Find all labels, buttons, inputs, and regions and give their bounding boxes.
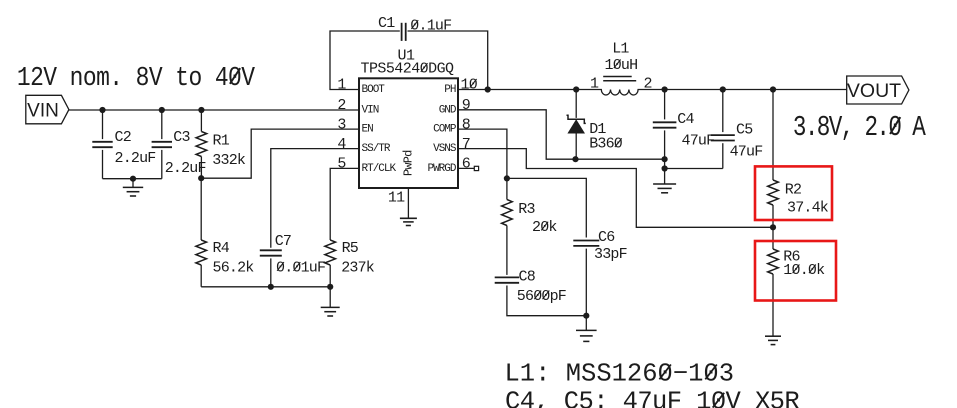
wire C7 bottom bbox=[270, 258, 272, 286]
svg-text:3.8V, 2.0 A: 3.8V, 2.0 A bbox=[793, 111, 926, 144]
node junction VIN/C3 bbox=[159, 107, 165, 113]
wire C6 top bbox=[507, 178, 586, 237]
ground input caps bbox=[132, 179, 134, 188]
svg-text:R1: R1 bbox=[213, 133, 230, 150]
no-connect square pin 6 bbox=[474, 166, 478, 170]
svg-text:PwPd: PwPd bbox=[402, 150, 416, 176]
svg-text:VIN: VIN bbox=[27, 100, 59, 121]
svg-text:0.1uF: 0.1uF bbox=[410, 18, 451, 35]
wire C2-C3 ground bus bbox=[103, 178, 162, 180]
svg-text:L1: L1 bbox=[612, 41, 629, 58]
wire C4 bottom bbox=[664, 130, 666, 168]
node junction R5 bottom bbox=[327, 284, 333, 290]
node junction output ground bbox=[662, 165, 668, 171]
wire R6 top bbox=[772, 227, 774, 249]
wire PH output rail with inductor L1 bbox=[458, 90, 847, 96]
ground compensation caps bbox=[585, 316, 587, 331]
wire C6 bottom bbox=[585, 249, 587, 316]
svg-text:PWRGD: PWRGD bbox=[427, 163, 456, 175]
capacitor C3 bbox=[152, 141, 172, 143]
svg-text:4: 4 bbox=[337, 136, 346, 153]
svg-text:C3: C3 bbox=[173, 129, 190, 146]
svg-text:332k: 332k bbox=[212, 152, 246, 169]
svg-text:237k: 237k bbox=[341, 259, 375, 276]
svg-text:C8: C8 bbox=[519, 268, 536, 285]
wire C1 to PH bbox=[408, 31, 488, 90]
capacitor C6 bbox=[573, 240, 599, 242]
resistor R6 bbox=[768, 249, 779, 274]
svg-text:VIN: VIN bbox=[362, 104, 379, 116]
node junction D1 anode bbox=[572, 156, 578, 162]
svg-text:5: 5 bbox=[337, 156, 346, 173]
node junction ground bus bbox=[130, 176, 136, 182]
svg-text:6: 6 bbox=[462, 156, 471, 173]
svg-text:L1: MSS1260−103: L1: MSS1260−103 bbox=[505, 359, 735, 388]
svg-text:SS/TR: SS/TR bbox=[362, 143, 391, 155]
ground output caps bbox=[664, 169, 666, 185]
wire R4 top bbox=[200, 178, 202, 240]
capacitor C1 bbox=[401, 23, 403, 41]
svg-text:1: 1 bbox=[337, 76, 346, 93]
svg-text:20k: 20k bbox=[532, 219, 557, 236]
wire C5 top bbox=[722, 90, 724, 133]
svg-text:10uH: 10uH bbox=[605, 57, 638, 74]
capacitor C4 bbox=[653, 121, 677, 123]
net tag VIN bbox=[26, 95, 69, 124]
svg-text:C1: C1 bbox=[378, 15, 395, 32]
svg-text:10: 10 bbox=[461, 76, 478, 93]
svg-text:R5: R5 bbox=[342, 240, 359, 257]
node junction D1/PH bbox=[573, 86, 579, 92]
node junction C7 bottom bbox=[268, 284, 274, 290]
svg-text:BOOT: BOOT bbox=[362, 84, 386, 96]
wire C4-C5 ground bus bbox=[665, 168, 723, 170]
svg-text:EN: EN bbox=[362, 124, 374, 136]
wire C2 bottom bbox=[102, 150, 104, 179]
node junction C6/C8 ground bbox=[583, 313, 589, 319]
highlight box R6 bbox=[755, 241, 836, 301]
wire D1 anode bbox=[575, 133, 577, 159]
svg-text:RT/CLK: RT/CLK bbox=[362, 163, 397, 175]
svg-text:C4, C5: 47uF 10V X5R: C4, C5: 47uF 10V X5R bbox=[505, 388, 799, 408]
svg-text:2: 2 bbox=[337, 97, 345, 114]
wire GND pin9 to power ground bbox=[458, 110, 665, 159]
svg-text:47uF: 47uF bbox=[730, 143, 763, 160]
node junction R2/VOUT bbox=[770, 86, 776, 92]
wire bottom bus R4-C7-R5 bbox=[201, 286, 330, 288]
resistor R4 bbox=[196, 240, 207, 265]
node junction C4/PH bbox=[662, 86, 668, 92]
node junction R2/R6 feedback bbox=[770, 224, 776, 230]
wire R5 bottom bbox=[329, 265, 331, 287]
svg-text:R4: R4 bbox=[213, 240, 230, 257]
wire D1 cathode bbox=[575, 90, 577, 118]
capacitor C5 bbox=[711, 134, 735, 136]
wire R2 bottom bbox=[772, 205, 774, 227]
wire R2 top bbox=[772, 90, 774, 181]
wire R1 top bbox=[200, 110, 202, 132]
svg-text:37.4k: 37.4k bbox=[787, 200, 829, 217]
wire SS/TR to C7 bbox=[271, 149, 359, 248]
svg-text:2.2uF: 2.2uF bbox=[165, 160, 206, 177]
node junction C5/PH bbox=[720, 86, 726, 92]
capacitor C7 bbox=[260, 249, 282, 251]
svg-text:1: 1 bbox=[590, 75, 599, 92]
svg-text:56.2k: 56.2k bbox=[213, 259, 255, 276]
svg-text:9: 9 bbox=[462, 97, 470, 114]
svg-text:2: 2 bbox=[644, 75, 652, 92]
svg-text:C6: C6 bbox=[598, 229, 615, 246]
svg-text:COMP: COMP bbox=[433, 124, 457, 136]
svg-text:C4: C4 bbox=[677, 111, 694, 128]
svg-text:R3: R3 bbox=[518, 201, 535, 218]
wire pin 11 to ground bbox=[407, 188, 409, 218]
node junction COMP/R3/C6 bbox=[504, 175, 510, 181]
wire C3 bottom bbox=[161, 150, 163, 179]
ground feedback divider bbox=[772, 335, 774, 337]
resistor R1 bbox=[196, 132, 207, 157]
svg-text:PH: PH bbox=[444, 84, 456, 96]
wire R4 bottom bbox=[200, 265, 202, 287]
svg-text:11: 11 bbox=[388, 189, 405, 206]
wire C8 bottom bus bbox=[507, 286, 586, 316]
svg-text:C2: C2 bbox=[115, 129, 131, 146]
svg-text:47uF: 47uF bbox=[682, 133, 715, 150]
wire EN to R1/R4 node bbox=[201, 129, 359, 178]
node junction C4 bottom bbox=[662, 156, 668, 162]
highlight box R2 bbox=[755, 166, 832, 220]
resistor R2 bbox=[768, 180, 779, 205]
ground compensation bus bbox=[329, 287, 331, 308]
svg-text:R2: R2 bbox=[785, 182, 801, 199]
wire PWRGD stub bbox=[458, 167, 474, 169]
svg-text:TPS54240DGQ: TPS54240DGQ bbox=[361, 61, 455, 78]
capacitor C8 bbox=[495, 276, 519, 278]
wire RT/CLK to R5 bbox=[330, 168, 359, 240]
wire VIN rail bbox=[69, 109, 359, 111]
diode D1 schottky bbox=[568, 120, 584, 133]
svg-text:C7: C7 bbox=[275, 233, 291, 250]
wire R6 bottom bbox=[772, 274, 774, 336]
op-amp U1 TPS54240DGQ body bbox=[359, 78, 458, 188]
svg-text:C5: C5 bbox=[736, 122, 753, 139]
wire R3 to C8 bbox=[506, 226, 508, 275]
svg-text:33pF: 33pF bbox=[594, 246, 627, 263]
svg-text:3: 3 bbox=[337, 116, 346, 133]
wire C3 top bbox=[161, 110, 163, 139]
inductor L1 core bars bbox=[603, 76, 632, 78]
node junction R1/R4/EN bbox=[198, 175, 204, 181]
svg-text:VOUT: VOUT bbox=[847, 80, 901, 102]
svg-text:12V nom. 8V to 40V: 12V nom. 8V to 40V bbox=[17, 62, 255, 93]
net tag VOUT bbox=[847, 76, 909, 104]
resistor R5 bbox=[325, 240, 336, 265]
wire R1 bottom bbox=[200, 157, 202, 179]
resistor R3 bbox=[502, 200, 513, 226]
svg-text:VSNS: VSNS bbox=[433, 143, 457, 155]
node junction VIN/R1 bbox=[198, 107, 204, 113]
wire COMP to R3 bbox=[458, 129, 507, 178]
node junction VIN/C2 bbox=[99, 107, 105, 113]
svg-text:8: 8 bbox=[462, 116, 471, 133]
svg-text:7: 7 bbox=[462, 136, 470, 153]
wire VSNS to feedback divider bbox=[458, 149, 773, 228]
ground pin 11 pad bbox=[407, 217, 409, 219]
svg-text:10.0k: 10.0k bbox=[783, 262, 825, 279]
wire C4 top bbox=[664, 90, 666, 120]
wire BOOT to C1 bbox=[330, 31, 400, 90]
node junction C1/PH bbox=[485, 86, 491, 92]
wire R3 top bbox=[506, 178, 508, 199]
svg-text:2.2uF: 2.2uF bbox=[115, 150, 156, 167]
wire C2 top bbox=[102, 110, 104, 139]
capacitor C2 bbox=[92, 141, 112, 143]
svg-text:GND: GND bbox=[439, 104, 457, 116]
wire C5 bottom bbox=[722, 143, 724, 168]
svg-text:5600pF: 5600pF bbox=[517, 288, 566, 305]
